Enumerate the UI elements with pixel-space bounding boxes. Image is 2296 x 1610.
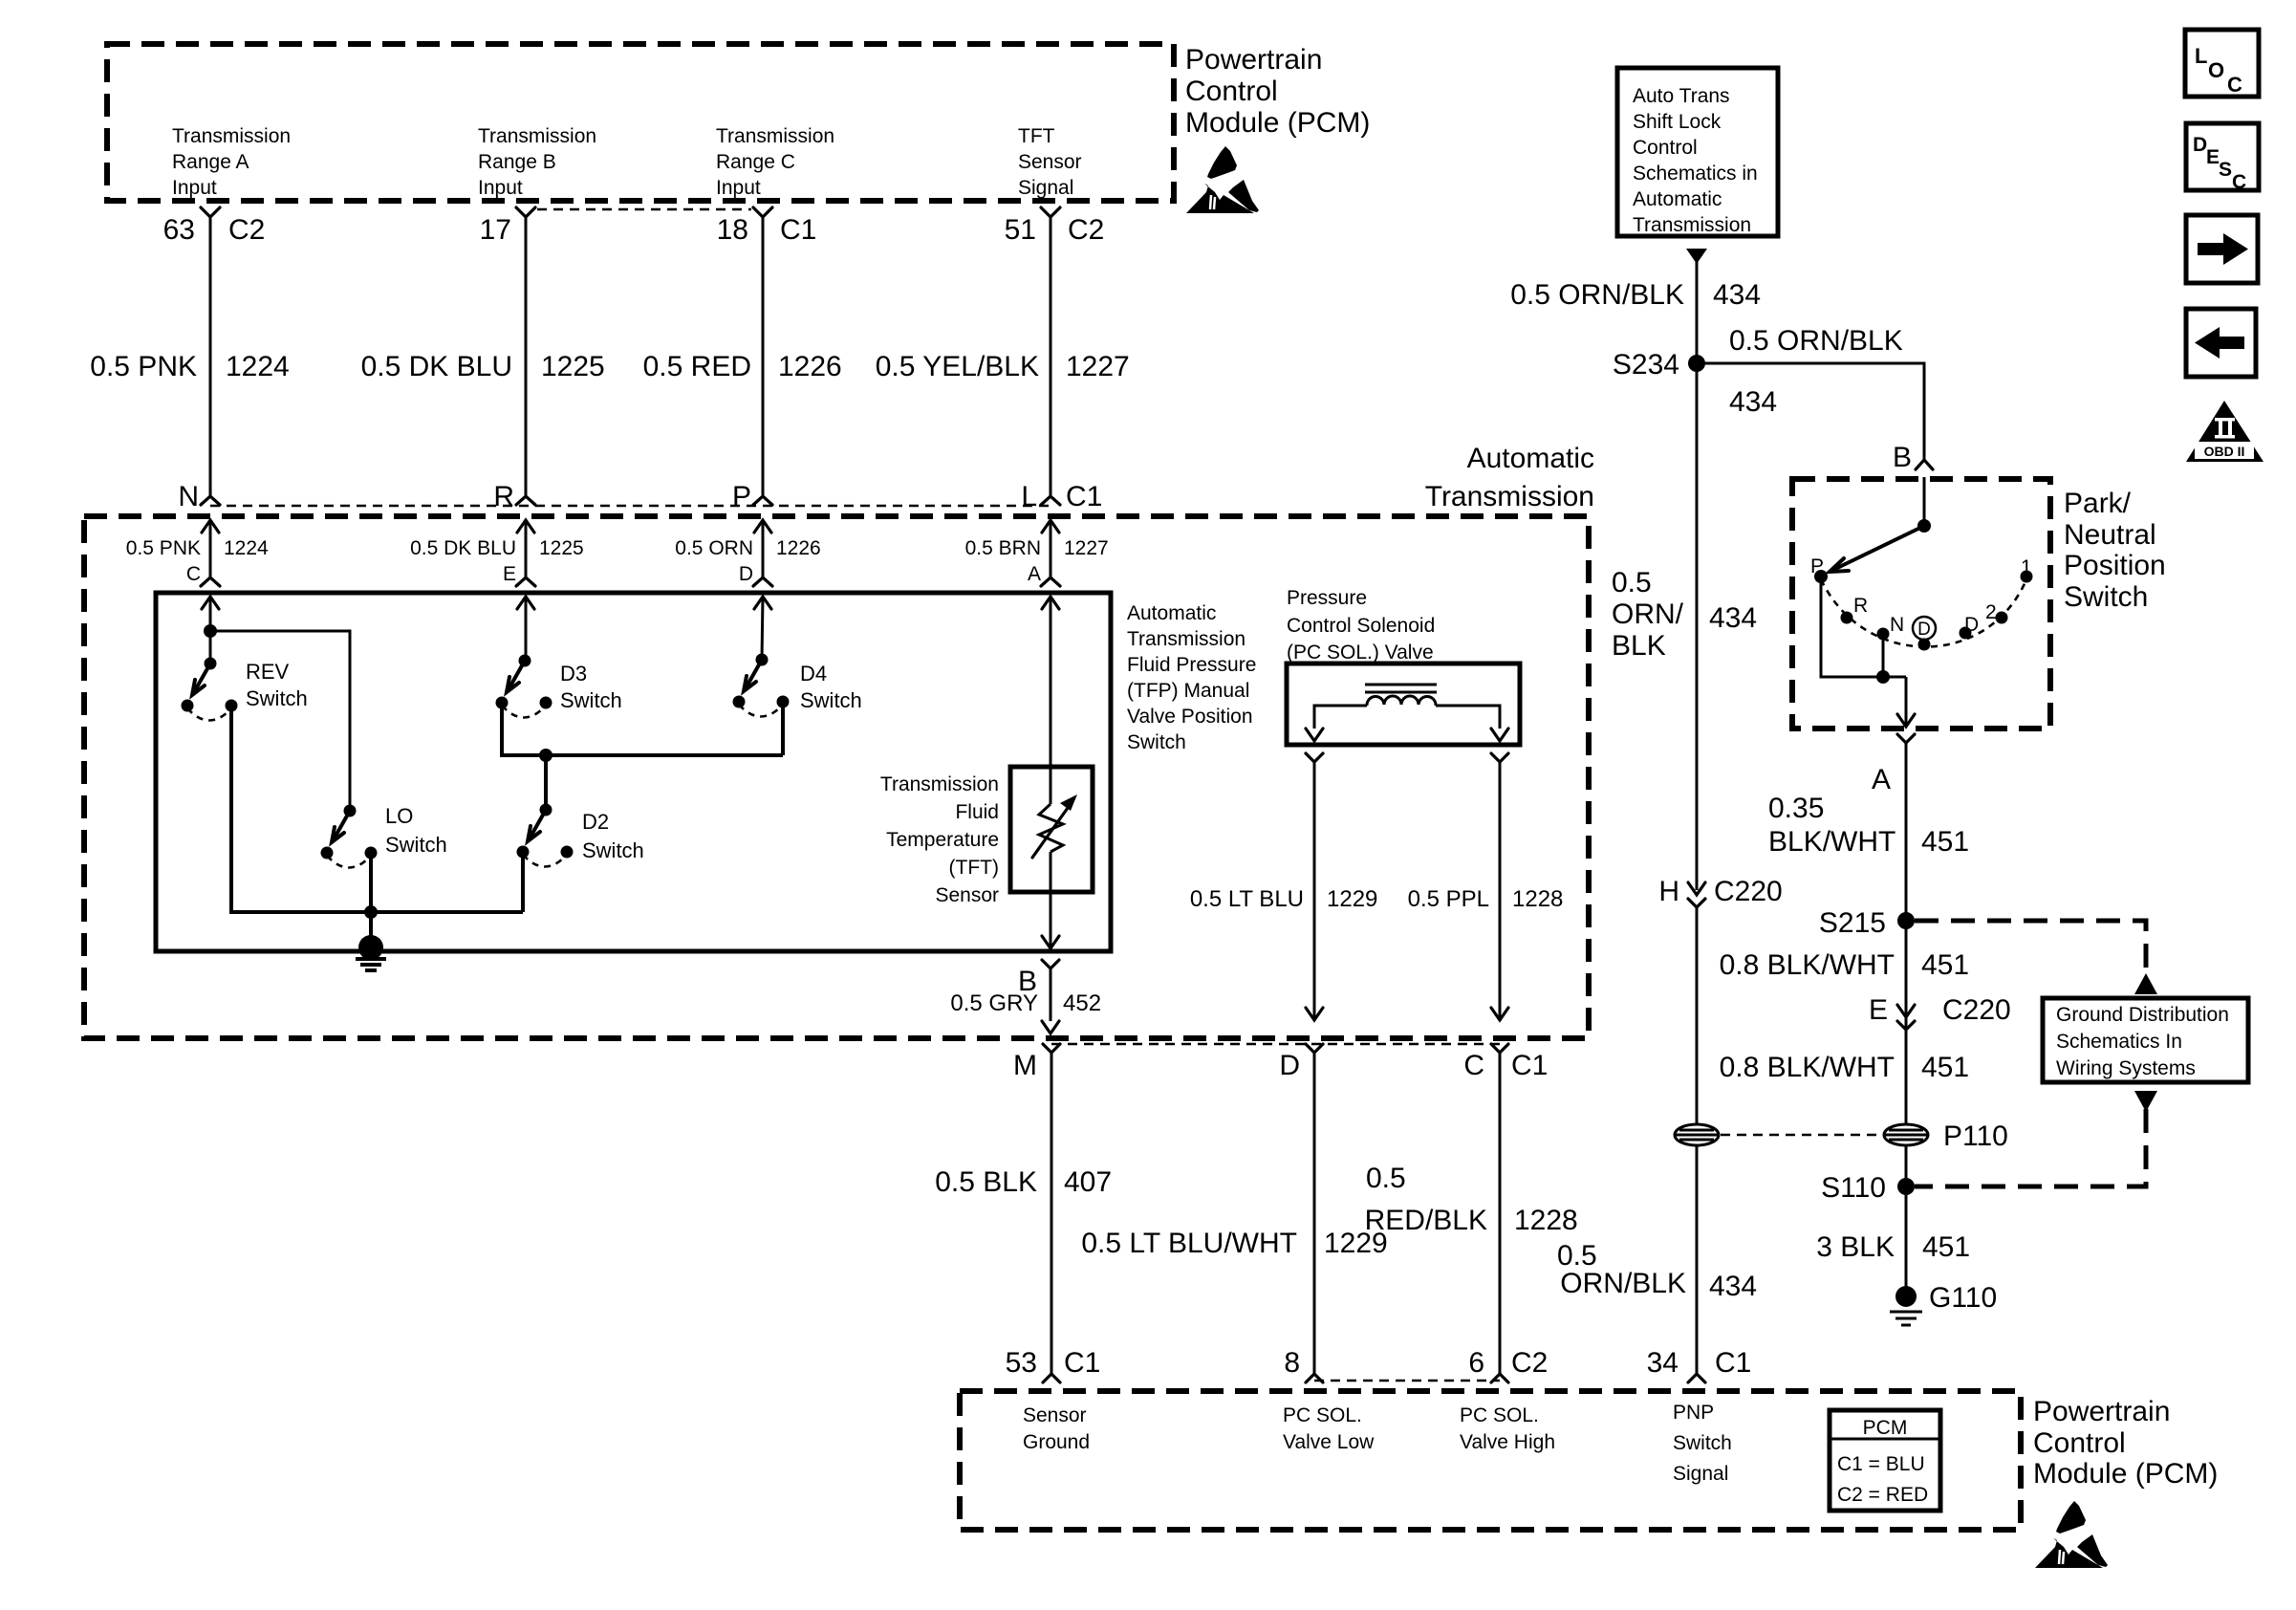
- svg-text:BLK: BLK: [1612, 630, 1666, 662]
- solenoid core bars: [1365, 684, 1437, 686]
- svg-text:Transmission: Transmission: [1633, 214, 1751, 236]
- LO switch: [344, 805, 357, 817]
- svg-text:ORN/BLK: ORN/BLK: [1560, 1268, 1686, 1299]
- svg-text:434: 434: [1713, 279, 1761, 311]
- reference dashed link Ground Distribution to S110: [1915, 1109, 2146, 1186]
- wire D4 right contact down to link: [781, 702, 785, 755]
- svg-text:Transmission: Transmission: [880, 773, 999, 795]
- reference arrow below Ground Distribution box: [2134, 1091, 2157, 1112]
- svg-text:451: 451: [1921, 949, 1969, 981]
- svg-text:Schematics in: Schematics in: [1633, 163, 1758, 185]
- TFT thermistor zigzag: [1039, 804, 1063, 852]
- svg-text:PCM: PCM: [1863, 1417, 1908, 1439]
- PNP contact 2: [1996, 612, 2008, 624]
- svg-text:0.5 YEL/BLK: 0.5 YEL/BLK: [876, 351, 1039, 382]
- fine dash between P110 halves: [1721, 1134, 1882, 1137]
- svg-text:Range B: Range B: [478, 151, 556, 173]
- svg-text:D2: D2: [582, 810, 609, 834]
- svg-text:A: A: [1872, 764, 1891, 795]
- svg-text:TFT: TFT: [1018, 125, 1055, 147]
- svg-text:M: M: [1013, 1050, 1037, 1081]
- PCM bottom dashed box: [960, 1391, 2021, 1530]
- svg-text:E: E: [1869, 994, 1888, 1026]
- PNP contact D circled: [1918, 639, 1931, 651]
- svg-text:RED/BLK: RED/BLK: [1365, 1205, 1487, 1236]
- svg-text:0.5 LT BLU/WHT: 0.5 LT BLU/WHT: [1081, 1228, 1297, 1259]
- svg-text:Schematics In: Schematics In: [2056, 1031, 2182, 1053]
- svg-text:1: 1: [2021, 556, 2032, 578]
- svg-text:S234: S234: [1613, 349, 1679, 381]
- wire 1226 upper (0.5 RED): [762, 217, 765, 496]
- svg-text:Wiring Systems: Wiring Systems: [2056, 1057, 2196, 1079]
- svg-text:Signal: Signal: [1673, 1463, 1728, 1485]
- node M below AT box: [1043, 1044, 1060, 1053]
- svg-text:Input: Input: [716, 177, 761, 199]
- node A below PNP box: [1897, 734, 1915, 743]
- connector fork pin 63: [201, 207, 220, 217]
- ESD symbol top: [1186, 146, 1259, 213]
- wire 1228 inside AT (0.5 PPL): [1499, 762, 1502, 1021]
- svg-text:O: O: [2208, 58, 2224, 82]
- svg-text:D3: D3: [560, 662, 587, 685]
- svg-text:D: D: [739, 563, 753, 585]
- PCM connector legend box: [1830, 1410, 1940, 1511]
- svg-text:0.5: 0.5: [1612, 567, 1652, 598]
- svg-text:LO: LO: [385, 804, 413, 828]
- wire B from TFT box to AT edge: [1050, 892, 1052, 949]
- svg-text:434: 434: [1709, 602, 1757, 634]
- pin 6 C2: [1491, 1374, 1508, 1382]
- svg-text:E: E: [503, 563, 516, 585]
- svg-text:G110: G110: [1929, 1282, 1997, 1314]
- svg-text:Park/: Park/: [2064, 488, 2132, 519]
- svg-text:Range A: Range A: [172, 151, 249, 173]
- svg-text:451: 451: [1921, 826, 1969, 858]
- pin fork PC SOL right: [1491, 753, 1508, 762]
- svg-text:Pressure: Pressure: [1287, 587, 1367, 609]
- svg-text:P: P: [732, 481, 751, 512]
- connector fork pin 17: [516, 207, 535, 217]
- wire 434 branch to PNP switch: [1697, 363, 1924, 460]
- svg-text:Position: Position: [2064, 550, 2166, 581]
- wire 1224 upper (0.5 PNK): [209, 217, 212, 496]
- wire 1228 lower (0.5 RED/BLK): [1499, 1053, 1502, 1374]
- svg-text:0.5 PPL: 0.5 PPL: [1408, 886, 1489, 912]
- svg-text:P110: P110: [1943, 1120, 2008, 1152]
- reference dashed link S215 to Ground Distribution: [1915, 921, 2146, 975]
- svg-text:451: 451: [1922, 1231, 1970, 1263]
- svg-text:Ground: Ground: [1023, 1431, 1090, 1453]
- svg-text:Automatic: Automatic: [1127, 602, 1216, 624]
- wire LO right contact down to common: [369, 853, 373, 912]
- icon LOC: [2185, 30, 2259, 97]
- wire 1229 lower (0.5 LT BLU/WHT): [1313, 1053, 1316, 1374]
- PNP wiper arm to P: [1833, 526, 1924, 570]
- svg-text:1226: 1226: [778, 351, 842, 382]
- connector fork pin 18: [753, 207, 772, 217]
- svg-text:0.5 ORN: 0.5 ORN: [675, 537, 753, 559]
- icon arrow right: [2186, 215, 2258, 283]
- pin 34 C1: [1688, 1374, 1705, 1382]
- icon arrow left: [2186, 309, 2256, 377]
- wire 434 continues down: [1696, 907, 1699, 1374]
- svg-text:Sensor: Sensor: [1023, 1404, 1087, 1426]
- svg-text:PC SOL.: PC SOL.: [1283, 1404, 1362, 1426]
- TFT sensor wire entry: [1042, 597, 1059, 609]
- svg-text:1225: 1225: [541, 351, 605, 382]
- svg-text:0.5 PNK: 0.5 PNK: [90, 351, 197, 382]
- PNP contact 1: [2021, 571, 2033, 583]
- svg-text:Temperature: Temperature: [886, 829, 999, 851]
- svg-text:1227: 1227: [1066, 351, 1130, 382]
- inline connector P110 right: [1884, 1124, 1928, 1145]
- svg-text:C1: C1: [1064, 1347, 1100, 1379]
- icon OBD II: [2186, 401, 2264, 462]
- svg-text:18: 18: [717, 214, 748, 246]
- svg-text:S110: S110: [1821, 1172, 1886, 1204]
- wire branch to LO switch: [210, 631, 350, 811]
- pin 8: [1306, 1374, 1323, 1382]
- svg-text:0.35: 0.35: [1768, 793, 1824, 824]
- wire 1225 upper (0.5 DK BLU): [525, 217, 528, 496]
- fine dash connector line pins 17-18: [537, 208, 751, 211]
- svg-text:(PC SOL.) Valve: (PC SOL.) Valve: [1287, 642, 1434, 664]
- svg-text:C: C: [2232, 171, 2246, 193]
- svg-text:C1: C1: [1715, 1347, 1751, 1379]
- svg-text:1224: 1224: [226, 351, 290, 382]
- svg-text:Switch: Switch: [560, 688, 622, 712]
- fine dash connector line N-L: [210, 505, 1051, 508]
- svg-text:L: L: [2195, 44, 2207, 68]
- svg-text:0.8 BLK/WHT: 0.8 BLK/WHT: [1720, 949, 1895, 981]
- svg-text:Switch: Switch: [2064, 581, 2148, 613]
- svg-text:REV: REV: [246, 660, 290, 684]
- PCM top dashed box (Powertrain Control Module): [107, 44, 1174, 201]
- svg-text:Transmission: Transmission: [716, 125, 834, 147]
- svg-text:Valve Low: Valve Low: [1283, 1431, 1375, 1453]
- svg-text:1226: 1226: [776, 537, 821, 559]
- svg-text:17: 17: [480, 214, 511, 246]
- svg-text:PNP: PNP: [1673, 1402, 1714, 1424]
- svg-text:1227: 1227: [1064, 537, 1109, 559]
- svg-text:C1: C1: [780, 214, 816, 246]
- wire to pin A with arrow: [1905, 677, 1908, 727]
- svg-text:63: 63: [163, 214, 195, 246]
- svg-text:Powertrain: Powertrain: [1185, 44, 1322, 76]
- svg-text:1225: 1225: [539, 537, 584, 559]
- svg-text:Fluid: Fluid: [955, 801, 999, 823]
- junction node A branch: [204, 624, 217, 638]
- pin B fork below TFP box: [1042, 960, 1059, 968]
- svg-text:PC SOL.: PC SOL.: [1460, 1404, 1539, 1426]
- svg-text:0.5 RED: 0.5 RED: [643, 351, 751, 382]
- Pressure Control Solenoid (PC SOL.) Valve box: [1287, 664, 1520, 745]
- Park/Neutral Position Switch dashed box: [1792, 479, 2050, 729]
- splice S110: [1897, 1178, 1915, 1195]
- TFT thermistor arrow: [1032, 801, 1072, 858]
- svg-text:Automatic: Automatic: [1633, 188, 1722, 210]
- TFP manual valve position switch box: [156, 593, 1111, 951]
- svg-text:0.5 DK BLU: 0.5 DK BLU: [361, 351, 512, 382]
- svg-text:Sensor: Sensor: [1018, 151, 1082, 173]
- svg-text:D: D: [1279, 1050, 1300, 1081]
- svg-text:Valve Position: Valve Position: [1127, 706, 1253, 728]
- wire D2 left contact down to common: [521, 852, 525, 912]
- fine dash connector line M-D-C: [1051, 1043, 1500, 1046]
- svg-text:434: 434: [1729, 386, 1777, 418]
- wire 407 (0.5 BLK): [1051, 1053, 1053, 1374]
- PNP contact D: [1960, 627, 1972, 640]
- svg-text:A: A: [1028, 563, 1041, 585]
- wire 451 (0.35 BLK/WHT): [1905, 743, 1908, 1296]
- svg-text:0.5 ORN/BLK: 0.5 ORN/BLK: [1510, 279, 1684, 311]
- svg-text:D: D: [1964, 614, 1979, 636]
- connector fork pin 51: [1041, 207, 1060, 217]
- svg-text:Control: Control: [2033, 1427, 2126, 1459]
- svg-text:C220: C220: [1714, 876, 1783, 907]
- PNP contact arc dashed: [1821, 579, 2026, 647]
- svg-text:Switch: Switch: [800, 688, 862, 712]
- svg-text:2: 2: [1985, 601, 1997, 623]
- svg-text:0.5: 0.5: [1366, 1163, 1406, 1194]
- svg-text:0.5 GRY: 0.5 GRY: [950, 990, 1038, 1016]
- wire 1229 inside AT (0.5 LT BLU): [1313, 762, 1316, 1021]
- svg-text:(TFT): (TFT): [949, 857, 999, 879]
- svg-text:0.5 PNK: 0.5 PNK: [126, 537, 201, 559]
- wire from REV switch to common: [231, 706, 523, 912]
- pin fork PC SOL left: [1306, 753, 1323, 762]
- svg-text:C2: C2: [1068, 214, 1104, 246]
- ground G110: [1895, 1286, 1917, 1307]
- D4 switch: [754, 597, 771, 609]
- PNP contact P: [1814, 570, 1828, 583]
- wire 1227 upper (0.5 YEL/BLK): [1050, 217, 1052, 496]
- svg-text:Switch: Switch: [1673, 1432, 1732, 1454]
- svg-text:Transmission: Transmission: [1127, 628, 1245, 650]
- svg-text:434: 434: [1709, 1271, 1757, 1302]
- splice S234: [1688, 355, 1705, 372]
- svg-text:R: R: [1853, 595, 1868, 617]
- REV switch: [205, 658, 217, 670]
- solenoid coil L1: [1367, 696, 1436, 706]
- svg-text:BLK/WHT: BLK/WHT: [1768, 826, 1895, 858]
- svg-text:E: E: [2206, 146, 2220, 168]
- D2 switch: [540, 804, 552, 816]
- svg-text:C220: C220: [1942, 994, 2011, 1026]
- svg-text:1228: 1228: [1512, 886, 1563, 912]
- svg-text:Transmission: Transmission: [1425, 481, 1594, 512]
- svg-text:1224: 1224: [224, 537, 269, 559]
- PNP rotor junction: [1917, 519, 1931, 533]
- svg-text:51: 51: [1005, 214, 1036, 246]
- svg-text:B: B: [1893, 442, 1912, 473]
- PNP contact N: [1877, 628, 1890, 641]
- svg-text:C: C: [1463, 1050, 1484, 1081]
- svg-text:(TFP) Manual: (TFP) Manual: [1127, 680, 1249, 702]
- svg-text:C: C: [2227, 73, 2242, 97]
- wire 434 upper (0.5 ORN/BLK): [1696, 260, 1699, 890]
- ESD symbol bottom: [2035, 1501, 2108, 1568]
- svg-text:Switch: Switch: [1127, 731, 1186, 753]
- inline connector P110 left: [1675, 1124, 1719, 1145]
- wire junction down to D2 pivot: [544, 755, 548, 810]
- svg-text:D4: D4: [800, 662, 827, 685]
- svg-text:Input: Input: [478, 177, 523, 199]
- junction on common ground line: [364, 905, 378, 919]
- svg-text:P: P: [1810, 555, 1824, 577]
- Auto Trans Shift Lock Control reference box: [1617, 68, 1778, 236]
- svg-text:0.5 LT BLU: 0.5 LT BLU: [1190, 886, 1304, 912]
- svg-text:Sensor: Sensor: [935, 884, 999, 906]
- svg-text:ORN/: ORN/: [1612, 598, 1684, 630]
- svg-text:Auto Trans: Auto Trans: [1633, 85, 1730, 107]
- svg-text:53: 53: [1006, 1347, 1037, 1379]
- node C C1 below AT box: [1491, 1044, 1508, 1053]
- svg-text:C2: C2: [1511, 1347, 1548, 1379]
- PNP contact R: [1841, 612, 1853, 624]
- icon DESC: [2186, 123, 2259, 193]
- svg-text:S: S: [2219, 159, 2232, 181]
- svg-text:0.8 BLK/WHT: 0.8 BLK/WHT: [1720, 1052, 1895, 1083]
- wire C terminal (0.5 PNK 1224 inside AT): [202, 520, 219, 533]
- node D below AT box: [1306, 1044, 1323, 1053]
- svg-text:Ground Distribution: Ground Distribution: [2056, 1004, 2229, 1026]
- svg-text:6: 6: [1468, 1347, 1484, 1379]
- svg-text:Control: Control: [1185, 76, 1278, 107]
- svg-text:Module (PCM): Module (PCM): [2033, 1458, 2218, 1490]
- svg-text:Switch: Switch: [582, 838, 644, 862]
- svg-text:0.5 BLK: 0.5 BLK: [935, 1166, 1037, 1198]
- splice S215: [1897, 912, 1915, 929]
- svg-text:Switch: Switch: [385, 833, 447, 857]
- pin 53 C1: [1043, 1374, 1060, 1382]
- wire A entry arrow into TFP box: [202, 597, 219, 609]
- svg-text:1229: 1229: [1327, 886, 1377, 912]
- svg-text:C2: C2: [228, 214, 265, 246]
- svg-text:C1 = BLU: C1 = BLU: [1837, 1453, 1925, 1475]
- svg-text:34: 34: [1647, 1347, 1679, 1379]
- svg-text:0.5 ORN/BLK: 0.5 ORN/BLK: [1729, 325, 1903, 357]
- svg-text:452: 452: [1063, 990, 1101, 1016]
- svg-text:S215: S215: [1819, 907, 1886, 939]
- svg-text:0.5 BRN: 0.5 BRN: [965, 537, 1041, 559]
- svg-text:C: C: [186, 563, 201, 585]
- wire A terminal (0.5 BRN 1227 inside AT): [1042, 520, 1059, 533]
- svg-text:D: D: [1917, 620, 1931, 640]
- Ground Distribution reference box: [2043, 998, 2248, 1082]
- svg-text:1228: 1228: [1514, 1205, 1578, 1236]
- svg-text:0.5 DK BLU: 0.5 DK BLU: [410, 537, 516, 559]
- svg-text:C1: C1: [1511, 1050, 1548, 1081]
- svg-text:Valve High: Valve High: [1460, 1431, 1555, 1453]
- arrow at AT bottom edge wire B: [1042, 1021, 1059, 1033]
- TFT sensor box: [1010, 767, 1093, 892]
- D3 switch: [517, 597, 534, 609]
- svg-text:Signal: Signal: [1018, 177, 1073, 199]
- svg-text:Powertrain: Powertrain: [2033, 1396, 2170, 1427]
- svg-text:Input: Input: [172, 177, 217, 199]
- svg-text:C1: C1: [1066, 481, 1102, 512]
- svg-text:Shift Lock: Shift Lock: [1633, 111, 1722, 133]
- svg-text:Module (PCM): Module (PCM): [1185, 107, 1370, 139]
- svg-text:C2 = RED: C2 = RED: [1837, 1484, 1928, 1506]
- svg-text:Transmission: Transmission: [172, 125, 291, 147]
- svg-text:451: 451: [1921, 1052, 1969, 1083]
- svg-text:Control: Control: [1633, 137, 1698, 159]
- fine dash connector line pins 8-6: [1314, 1380, 1500, 1382]
- svg-text:Fluid Pressure: Fluid Pressure: [1127, 654, 1256, 676]
- wire P contact down: [1821, 577, 1906, 677]
- svg-text:Transmission: Transmission: [478, 125, 596, 147]
- svg-text:8: 8: [1284, 1347, 1300, 1379]
- wire N contact down: [1882, 634, 1885, 677]
- svg-text:Automatic: Automatic: [1467, 443, 1594, 474]
- svg-text:Control Solenoid: Control Solenoid: [1287, 615, 1435, 637]
- reference arrow below box: [1686, 249, 1707, 264]
- svg-text:L: L: [1021, 481, 1037, 512]
- svg-text:H: H: [1658, 876, 1679, 907]
- coil leads with arrows: [1314, 706, 1367, 729]
- wire E terminal (0.5 DK BLU 1225 inside AT): [517, 520, 534, 533]
- svg-text:N: N: [1890, 614, 1904, 636]
- ground symbol TFP: [358, 935, 383, 960]
- wire from D3 switch to D3-D4 link: [502, 703, 783, 755]
- svg-text:407: 407: [1064, 1166, 1112, 1198]
- svg-text:OBD II: OBD II: [2204, 444, 2245, 459]
- svg-text:Neutral: Neutral: [2064, 519, 2156, 551]
- svg-text:D: D: [2193, 134, 2207, 156]
- Automatic Transmission dashed box: [84, 516, 1589, 1038]
- wire D terminal (0.5 ORN 1226 inside AT): [754, 520, 771, 533]
- svg-text:R: R: [493, 481, 514, 512]
- wire junction to ground: [369, 912, 373, 947]
- svg-text:N: N: [178, 481, 199, 512]
- svg-text:Range C: Range C: [716, 151, 795, 173]
- junction on D3-D4 link: [539, 749, 552, 762]
- svg-text:Switch: Switch: [246, 686, 308, 710]
- svg-text:3 BLK: 3 BLK: [1816, 1231, 1895, 1263]
